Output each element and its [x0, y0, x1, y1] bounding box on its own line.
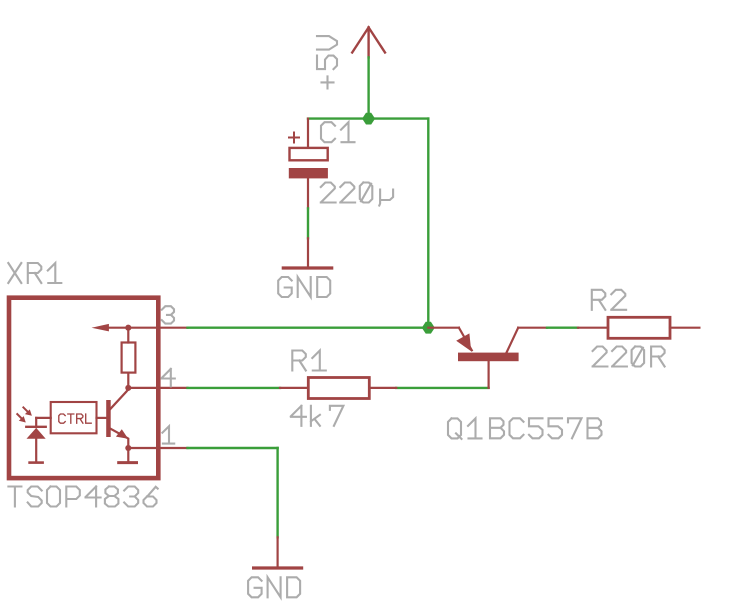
resistor R1 [280, 378, 396, 399]
label Q1 [448, 418, 482, 439]
wire pin1 horizontal [188, 447, 278, 449]
light arrows into photodiode [17, 407, 32, 422]
label CTRL [59, 414, 91, 423]
internal transistor [106, 388, 128, 448]
value 4k7 [291, 406, 344, 426]
wire R1 to Q1 base [396, 387, 488, 389]
+5V net label [317, 36, 337, 88]
wire top rail horizontal [308, 117, 428, 119]
IC XR1 TSOP4836 body [9, 298, 158, 478]
label GND (upper) [278, 277, 330, 297]
label R1 [292, 351, 326, 371]
label R2 [592, 290, 626, 310]
internal node dot pin3 [125, 325, 131, 331]
wire pin3 to +5V node [188, 327, 429, 329]
internal pull-up resistor [122, 328, 136, 388]
pin 4 lead [128, 387, 187, 389]
label TSOP4836 [8, 487, 157, 507]
internal CTRL block [51, 402, 106, 433]
transistor Q1 BC557B [428, 328, 547, 388]
value BC557B [490, 418, 602, 438]
wire pin4 to R1 [188, 387, 281, 389]
ground symbol under C1 [283, 238, 331, 268]
internal node dot pin4 [125, 385, 131, 391]
resistor R2 [578, 317, 699, 338]
+5V supply symbol P1 [352, 27, 385, 57]
internal node dot pin1 [125, 445, 131, 451]
pin 3 lead [128, 327, 187, 329]
capacitor C1 [289, 119, 328, 209]
wire pin1 down to GND [276, 448, 278, 537]
pin label 1 [162, 426, 174, 443]
junction at +5V rail [362, 113, 375, 125]
label GND (bottom) [248, 577, 300, 597]
value 220µ [321, 183, 393, 206]
wire +5V to junction [367, 57, 369, 118]
pin label 3 [162, 306, 174, 323]
junction at Q1 emitter node [422, 322, 435, 334]
wire C1 to GND [307, 208, 309, 238]
internal photodiode [26, 418, 50, 463]
value 220R [593, 347, 665, 367]
pin label 4 [162, 369, 175, 386]
internal emitter ground bar [119, 448, 137, 463]
ground symbol bottom [254, 537, 302, 568]
label C1 [321, 122, 355, 142]
wire Q1 collector to R2 [547, 327, 578, 329]
pin 1 lead [128, 447, 187, 449]
label XR1 [8, 263, 61, 283]
wire right vertical to Q1 emitter node [427, 119, 429, 328]
internal output arrow [92, 324, 129, 332]
